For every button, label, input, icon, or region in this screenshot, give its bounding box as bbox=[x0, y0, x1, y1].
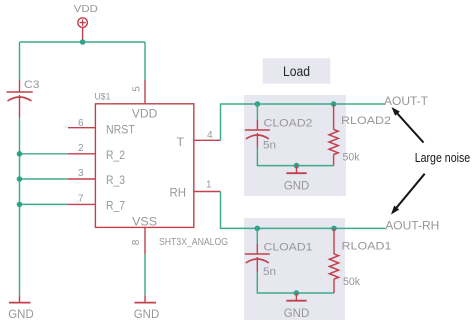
svg-text:VSS: VSS bbox=[132, 215, 157, 229]
junction GND load2 bbox=[294, 290, 300, 296]
svg-text:CLOAD2: CLOAD2 bbox=[264, 117, 313, 129]
junction GND load1 bbox=[294, 163, 300, 169]
svg-text:NRST: NRST bbox=[106, 123, 135, 137]
svg-text:7: 7 bbox=[78, 194, 84, 205]
svg-text:SHT3X_ANALOG: SHT3X_ANALOG bbox=[159, 237, 228, 248]
pin 2 R_2 bbox=[68, 153, 95, 155]
junction RLOAD2 top bbox=[331, 101, 337, 107]
capacitor C3 bbox=[7, 79, 40, 117]
ground symbol load2 bbox=[284, 293, 310, 320]
annotation arrow to AOUT-RH bbox=[391, 174, 425, 215]
wire net AOUT-RH bbox=[221, 192, 386, 229]
wire net VDD: vertical drop to pin 5 bbox=[144, 42, 146, 80]
svg-text:5n: 5n bbox=[263, 140, 276, 152]
svg-text:6: 6 bbox=[78, 118, 84, 129]
junction CLOAD2 top bbox=[255, 101, 261, 107]
svg-text:VDD: VDD bbox=[74, 3, 98, 15]
svg-text:VDD: VDD bbox=[132, 107, 158, 121]
annotation arrow to AOUT-T bbox=[392, 107, 424, 143]
ground symbol left bbox=[8, 295, 34, 321]
svg-text:AOUT-RH: AOUT-RH bbox=[385, 218, 439, 232]
svg-text:R_3: R_3 bbox=[106, 173, 125, 187]
wire stub to pin 3 bbox=[20, 178, 69, 180]
svg-text:4: 4 bbox=[207, 130, 213, 141]
svg-text:CLOAD1: CLOAD1 bbox=[264, 242, 313, 254]
svg-text:AOUT-T: AOUT-T bbox=[384, 94, 429, 108]
capacitor CLOAD2 bbox=[245, 117, 313, 151]
svg-text:RH: RH bbox=[170, 186, 187, 200]
svg-text:1: 1 bbox=[206, 180, 212, 191]
pin 1 RH bbox=[194, 191, 221, 193]
svg-text:GND: GND bbox=[8, 307, 34, 321]
svg-text:Load: Load bbox=[283, 63, 310, 79]
wire net AOUT-T bbox=[221, 104, 386, 140]
svg-text:U$1: U$1 bbox=[95, 92, 111, 103]
pin 8 VSS bottom bbox=[144, 227, 146, 254]
svg-text:GND: GND bbox=[284, 179, 310, 193]
wire CLOAD2 bottom bbox=[257, 148, 333, 166]
wire net VDD: top horizontal bbox=[20, 41, 146, 43]
svg-text:R_7: R_7 bbox=[106, 199, 125, 213]
pin 6 NRST bbox=[68, 127, 95, 129]
Load title box bbox=[263, 58, 331, 83]
svg-text:RLOAD2: RLOAD2 bbox=[341, 115, 391, 127]
svg-text:RLOAD1: RLOAD1 bbox=[342, 241, 392, 253]
junction pin7 bbox=[17, 202, 23, 208]
wire stub to pin 7 bbox=[20, 203, 69, 205]
svg-text:8: 8 bbox=[131, 239, 142, 245]
load highlight box 2 (bottom) bbox=[244, 218, 345, 320]
svg-text:T: T bbox=[177, 135, 185, 149]
wire CLOAD1 bottom bbox=[257, 272, 334, 294]
svg-text:2: 2 bbox=[78, 143, 84, 154]
pin 3 R_3 bbox=[68, 178, 95, 180]
load highlight box 1 (top) bbox=[244, 95, 346, 196]
pin 5 VDD top bbox=[144, 80, 146, 104]
wire net VDD: left vertical down to C3 top bbox=[19, 42, 21, 80]
svg-text:GND: GND bbox=[134, 307, 160, 321]
wire CLOAD2 top drop bbox=[256, 104, 258, 120]
pin 4 T bbox=[194, 139, 221, 141]
svg-text:50k: 50k bbox=[343, 276, 360, 288]
svg-text:C3: C3 bbox=[24, 79, 40, 91]
junction pin2 bbox=[17, 151, 23, 157]
pin 7 R_7 bbox=[68, 203, 95, 205]
resistor RLOAD2 bbox=[329, 104, 391, 166]
svg-text:5n: 5n bbox=[263, 266, 276, 278]
IC body bbox=[95, 104, 193, 228]
svg-text:GND: GND bbox=[284, 306, 310, 320]
capacitor CLOAD1 bbox=[245, 242, 313, 279]
wire CLOAD1 top drop bbox=[256, 228, 258, 244]
junction on VDD net bbox=[80, 39, 86, 45]
wire stub to pin 2 bbox=[20, 153, 69, 155]
svg-text:Large noise: Large noise bbox=[415, 150, 471, 165]
junction RLOAD1 top bbox=[331, 226, 337, 232]
ground symbol load1 bbox=[284, 166, 310, 193]
svg-text:3: 3 bbox=[78, 168, 84, 179]
svg-text:50k: 50k bbox=[343, 151, 360, 163]
wire net GND: left vertical from C3 to ground bbox=[19, 117, 21, 295]
ground symbol IC VSS bbox=[134, 254, 160, 321]
svg-text:R_2: R_2 bbox=[106, 148, 125, 162]
junction pin3 bbox=[17, 176, 23, 182]
IC U$1 SHT3X_ANALOG bbox=[68, 80, 228, 255]
power flag VDD bbox=[74, 3, 98, 42]
junction CLOAD1 top bbox=[254, 226, 260, 232]
resistor RLOAD1 bbox=[329, 228, 391, 293]
svg-text:5: 5 bbox=[131, 86, 142, 92]
